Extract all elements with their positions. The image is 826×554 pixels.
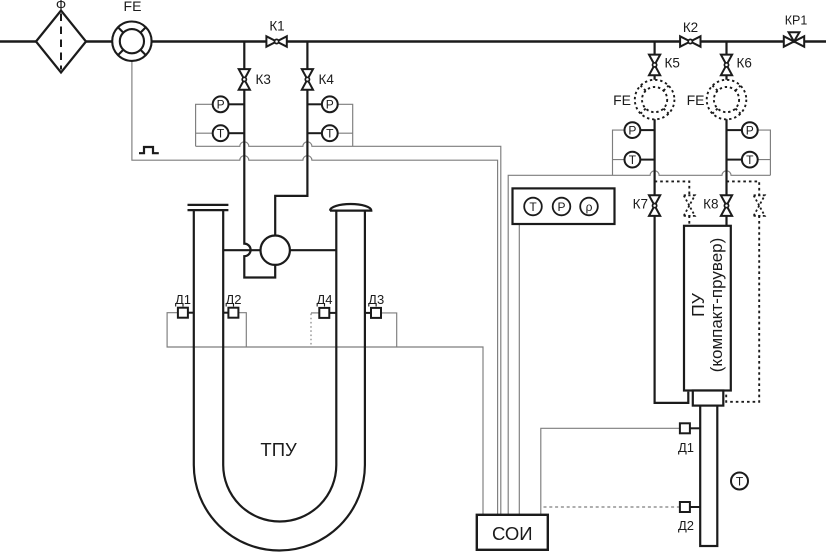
flow element FE1 outer xyxy=(112,22,151,61)
wire branch K6-FE-K8 down to prover top xyxy=(725,42,727,226)
svg-text:Д3: Д3 xyxy=(368,292,384,307)
wire bracket P/T group K3 xyxy=(196,104,213,146)
wire bus A: left P/T brackets to SOI xyxy=(196,142,501,515)
prover neck xyxy=(693,391,724,406)
wire bracket P/T group K5 xyxy=(613,130,625,175)
detector D4 stub xyxy=(329,312,336,314)
gauge P4 xyxy=(742,122,758,138)
detector D2 stub xyxy=(223,312,228,314)
svg-text:ПУ: ПУ xyxy=(688,292,708,317)
wire stub T1 xyxy=(229,132,245,134)
svg-text:Д4: Д4 xyxy=(316,292,332,307)
valve K2 body xyxy=(680,36,690,46)
svg-text:К6: К6 xyxy=(737,56,752,71)
detector D2 xyxy=(228,308,238,318)
valve K1 body xyxy=(266,36,276,46)
wire branch K3 with jump over valve line xyxy=(244,42,275,278)
svg-text:P: P xyxy=(217,98,225,112)
svg-text:КР1: КР1 xyxy=(785,14,808,28)
gauge T1 xyxy=(213,125,229,141)
TPU right pipe walls xyxy=(336,211,365,465)
svg-text:К7: К7 xyxy=(633,197,648,212)
wire branch K5-FE-K7 down to prover inlet xyxy=(655,42,689,403)
svg-text:К2: К2 xyxy=(683,20,698,35)
wire TPR box to SOI xyxy=(518,224,520,515)
valve K8 body xyxy=(721,195,732,205)
detector D1 xyxy=(178,308,188,318)
svg-text:FE: FE xyxy=(687,92,705,108)
detector D1 stub xyxy=(188,312,194,314)
filter F1 body xyxy=(36,11,86,73)
TPU right dome xyxy=(330,204,371,211)
wire FE1 pulse line to SOI (bus B) xyxy=(132,61,498,515)
wire bracket P/T group K6 xyxy=(758,130,771,175)
wire dotted bypass 1 xyxy=(655,181,690,225)
svg-text:T: T xyxy=(217,127,225,141)
TPU inner U-bend xyxy=(223,465,336,522)
TPU left flange xyxy=(188,205,229,210)
prover pipe xyxy=(700,406,717,546)
svg-text:К4: К4 xyxy=(319,72,335,87)
detector D4 xyxy=(319,308,329,318)
wire stub T3 xyxy=(640,159,654,161)
prover PU body xyxy=(684,226,731,391)
svg-text:ТПУ: ТПУ xyxy=(260,439,297,460)
gauge P5 xyxy=(553,198,571,216)
gauge T5 xyxy=(524,198,542,216)
gauge P1 xyxy=(213,96,229,112)
wire TPU detector bus to SOI xyxy=(167,313,483,515)
svg-text:Ф: Ф xyxy=(56,0,66,13)
detector D1p stub xyxy=(690,427,700,429)
svg-text:FE: FE xyxy=(124,0,142,14)
svg-text:T: T xyxy=(629,153,637,167)
detector D3 xyxy=(371,308,381,318)
gauge rho xyxy=(580,198,598,216)
flow element FE2 inner xyxy=(642,87,667,112)
flow element FE2 outer xyxy=(635,80,675,120)
svg-text:P: P xyxy=(326,98,334,112)
gauge P2 xyxy=(322,96,338,112)
wire prover detector bracket xyxy=(541,428,680,515)
wire prover D2 (dashed) xyxy=(541,506,680,508)
detector D2p stub xyxy=(690,506,700,508)
gauge T3 xyxy=(625,152,641,168)
valve K6 body xyxy=(721,55,732,65)
wire bracket P/T group K4 xyxy=(338,104,353,146)
valve K3 body xyxy=(239,69,250,79)
valve K4 body xyxy=(302,69,313,79)
gauge T4 xyxy=(742,152,758,168)
wire D2 drop xyxy=(238,313,246,347)
valve KP1 body xyxy=(784,36,794,46)
detector D2p xyxy=(680,502,690,512)
svg-text:СОИ: СОИ xyxy=(492,523,533,544)
detector D3 stub xyxy=(365,312,371,314)
svg-text:Д1: Д1 xyxy=(678,440,694,455)
svg-text:P: P xyxy=(628,123,636,137)
filter F1 element dashed xyxy=(60,14,62,70)
svg-text:P: P xyxy=(746,123,754,137)
wire stub T4 xyxy=(727,159,742,161)
valve K7 body xyxy=(649,195,660,205)
svg-text:К5: К5 xyxy=(665,56,680,71)
wire stub P3 xyxy=(640,129,654,131)
flow element FE3 spokes xyxy=(735,86,740,91)
flow element FE3 outer xyxy=(707,80,747,120)
wire stub P4 xyxy=(727,129,742,131)
wire 4-way valve right line xyxy=(290,249,336,251)
box SOI xyxy=(477,515,548,550)
wire branch K4 to 4-way valve top xyxy=(275,42,307,236)
svg-text:T: T xyxy=(736,474,744,488)
flow element FE1 inner xyxy=(120,29,144,53)
svg-text:T: T xyxy=(746,153,754,167)
svg-text:T: T xyxy=(326,127,334,141)
svg-text:FE: FE xyxy=(613,92,631,108)
svg-text:(компакт-прувер): (компакт-прувер) xyxy=(707,238,726,373)
wire 4-way valve left line xyxy=(223,249,260,251)
svg-text:К8: К8 xyxy=(703,197,718,212)
wire bus C: right P/T brackets to SOI xyxy=(508,171,770,515)
gauge P3 xyxy=(625,122,641,138)
wire stub T2 xyxy=(307,132,322,134)
wire stub P2 xyxy=(307,103,322,105)
flow element FE2 spokes xyxy=(664,86,669,91)
wire stub P1 xyxy=(229,103,245,105)
wire dotted bypass 2 xyxy=(726,181,759,401)
gauge T6 xyxy=(731,473,748,490)
svg-text:ρ: ρ xyxy=(586,200,593,214)
gauge T2 xyxy=(322,125,338,141)
svg-text:P: P xyxy=(557,200,565,214)
svg-text:К3: К3 xyxy=(256,72,271,87)
svg-text:Д2: Д2 xyxy=(678,518,694,533)
wire main horizontal pipe xyxy=(0,40,826,42)
flow element FE3 inner xyxy=(714,87,739,112)
flow element FE1 spokes xyxy=(118,27,146,55)
svg-text:T: T xyxy=(529,200,537,214)
wire D3 drop xyxy=(381,313,397,347)
box TPR xyxy=(513,188,615,224)
detector D1p xyxy=(680,423,690,433)
svg-text:Д1: Д1 xyxy=(175,292,191,307)
svg-text:Д2: Д2 xyxy=(225,292,241,307)
TPU left pipe walls xyxy=(194,210,223,465)
valve K5 body xyxy=(649,55,660,65)
svg-text:К1: К1 xyxy=(269,19,284,34)
wire D4 drop (dotted) xyxy=(311,312,319,314)
TPU outer U-bend xyxy=(194,465,365,551)
